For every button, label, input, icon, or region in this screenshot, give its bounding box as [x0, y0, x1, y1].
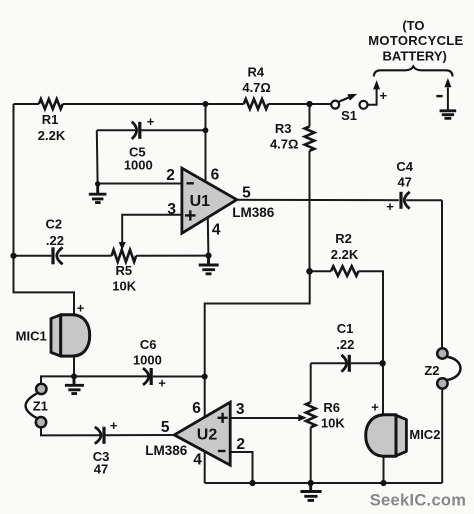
op-amp U1 [182, 168, 237, 233]
svg-text:2: 2 [236, 436, 245, 453]
wire R2 node to zigzag [310, 270, 332, 272]
svg-text:3: 3 [236, 401, 245, 418]
svg-text:C4: C4 [396, 159, 413, 174]
junction U2 pin 2 bottom rail [249, 480, 255, 486]
svg-text:4: 4 [212, 222, 221, 239]
junction U1 pin 4 ground [205, 253, 211, 259]
svg-text:2: 2 [166, 167, 175, 184]
junction C1 MIC2 node [379, 360, 385, 366]
wire left rail [13, 104, 15, 256]
svg-text:5: 5 [242, 185, 251, 202]
svg-text:+: + [380, 88, 388, 103]
ground at R6 bottom rail [300, 485, 321, 500]
svg-text:MIC1: MIC1 [16, 329, 47, 344]
svg-text:MOTORCYCLE: MOTORCYCLE [368, 33, 463, 48]
capacitor C2 plate curved [57, 247, 63, 264]
wire C2 to R5 [60, 255, 112, 257]
resistor R2 [331, 266, 359, 276]
wire U2 pin 2 [230, 452, 252, 483]
svg-text:.22: .22 [46, 233, 64, 248]
svg-text:10K: 10K [112, 279, 136, 294]
wire U1 output to C4 [237, 199, 399, 201]
wire C4 to right rail [406, 199, 442, 201]
wire C2 row left [14, 255, 52, 257]
wire battery minus stem [447, 88, 449, 111]
svg-text:1000: 1000 [124, 157, 153, 172]
wire top rail left segment (V+ net) [14, 103, 39, 105]
svg-text:4.7Ω: 4.7Ω [242, 80, 271, 95]
switch S1 arm [339, 96, 352, 102]
capacitor C4 plate curved [404, 192, 409, 209]
capacitor C4 plate straight [399, 192, 402, 209]
wire top rail R4 to S1 [268, 103, 331, 105]
wire U2 pin 4 [204, 449, 206, 483]
wire Z2 to bottom rail [441, 389, 443, 483]
ground at U1 pin 4 [199, 258, 219, 274]
junction top rail at U1 pin 6 [203, 101, 209, 107]
svg-text:R5: R5 [115, 263, 132, 278]
svg-text:R1: R1 [42, 112, 59, 127]
jack Z1 cable arc [26, 393, 37, 418]
wire U1 pin 6 [205, 104, 207, 182]
svg-text:1000: 1000 [133, 352, 162, 367]
wire C1 row left from R6 top corner [311, 362, 346, 364]
wire R6 top [310, 363, 312, 402]
svg-text:6: 6 [211, 166, 220, 183]
potentiometer R5 wiper arrowhead [119, 242, 126, 250]
junction MIC1 ground node [71, 373, 77, 379]
switch S1 left contact [331, 101, 339, 109]
battery plus terminal arrowhead [373, 80, 380, 89]
op-amp U1 plus sign [185, 210, 196, 220]
svg-text:R6: R6 [323, 400, 340, 415]
jack Z2 cable arc [447, 357, 460, 380]
microphone MIC1 horn [51, 315, 61, 356]
junction R6 bottom rail [308, 480, 314, 486]
wire MIC2 bottom [383, 456, 385, 483]
microphone MIC2 horn [396, 415, 406, 456]
wire U1 pin 3 input [122, 215, 182, 243]
capacitor C2 plate straight [51, 247, 54, 264]
svg-text:BATTERY): BATTERY) [383, 48, 447, 63]
junction U2 pin 6 node [202, 374, 208, 380]
svg-text:MIC2: MIC2 [409, 427, 440, 442]
svg-text:R3: R3 [275, 121, 292, 136]
wire U1 pin 4 [207, 218, 210, 256]
potentiometer R5 [112, 250, 137, 262]
wire C5 row left [97, 129, 135, 131]
wire right rail down to Z2 [441, 200, 443, 348]
wire R3 rail upper [309, 104, 311, 127]
resistor R1 [39, 99, 63, 109]
svg-text:+: + [77, 301, 85, 316]
svg-text:U1: U1 [190, 193, 211, 210]
junction left rail at C2 [10, 253, 16, 259]
capacitor C6 plate curved [143, 368, 149, 385]
wire top rail R1 to R4 [63, 103, 244, 105]
op-amp U2 [174, 402, 230, 465]
ground at battery minus [440, 111, 457, 119]
wire C5 down to ground node [96, 130, 99, 184]
wire S1 to battery plus [368, 89, 377, 105]
capacitor C5 plate straight [138, 122, 141, 139]
wire bottom rail (ground net) [205, 482, 443, 484]
ground at MIC1 [65, 378, 84, 394]
microphone MIC1 body [61, 315, 90, 356]
wire Z1 to C3 [41, 428, 100, 435]
wire C1 to MIC2 rail [351, 362, 383, 364]
junction C5 ground node [95, 181, 100, 186]
ground at C5 and U1 pin 2 [89, 186, 107, 203]
svg-text:.22: .22 [336, 337, 354, 352]
svg-text:5: 5 [161, 419, 170, 436]
svg-text:4: 4 [193, 451, 202, 468]
jack Z1 bottom terminal [36, 417, 46, 427]
op-amp U1 minus sign [187, 182, 194, 184]
capacitor C5 plate curved [132, 122, 137, 139]
svg-text:C6: C6 [140, 337, 157, 352]
svg-text:Z1: Z1 [33, 398, 48, 413]
wire C6 to U2 pin6 node [153, 376, 205, 378]
wire R5 to U1 pin4 ground node [136, 255, 208, 257]
svg-text:+: + [147, 114, 155, 129]
jack Z1 top terminal [36, 384, 46, 394]
svg-text:+: + [371, 400, 379, 415]
wire R3 rail lower to R2 node [309, 151, 311, 271]
svg-text:3: 3 [167, 201, 176, 218]
wire C6 row left [74, 375, 148, 377]
jack Z2 bottom terminal [437, 378, 447, 388]
capacitor C3 plate curved [95, 427, 101, 444]
svg-text:C1: C1 [337, 321, 354, 336]
wire U1 pin 2 input [98, 183, 182, 185]
battery minus sign [436, 95, 442, 97]
svg-text:LM386: LM386 [232, 205, 275, 220]
svg-text:R2: R2 [335, 231, 352, 246]
svg-text:Z2: Z2 [424, 363, 439, 378]
wire U2 output to C3 [106, 434, 175, 436]
junction MIC2 bottom rail [380, 480, 386, 486]
capacitor C1 plate curved [341, 355, 346, 372]
wire U2 pin 6 [204, 377, 206, 422]
junction C5 right node [203, 127, 209, 133]
wire left rail to MIC1 top [14, 256, 75, 315]
svg-text:+: + [386, 199, 394, 214]
capacitor C1 plate straight [348, 355, 351, 372]
op-amp U2 plus sign [218, 413, 228, 423]
potentiometer R6 wiper arrowhead [298, 414, 307, 421]
wire MIC1 bottom [73, 356, 75, 376]
battery minus terminal arrowhead [444, 78, 451, 87]
wire MIC1 node to Z1 top [41, 376, 74, 383]
capacitor C3 plate straight [102, 427, 105, 444]
svg-text:4.7Ω: 4.7Ω [270, 137, 299, 152]
wire R2 node down and across to U2 supply [205, 271, 310, 376]
svg-text:2.2K: 2.2K [38, 128, 66, 143]
svg-text:+: + [158, 375, 166, 390]
svg-text:U2: U2 [197, 427, 218, 444]
wire C5 to U1 pin6 node [141, 129, 205, 131]
svg-text:LM386: LM386 [145, 443, 188, 458]
junction R3 R2 node [306, 268, 313, 275]
wire U2 pin 3 to R6 wiper [230, 417, 298, 419]
junction top rail at R3 [306, 101, 312, 107]
svg-text:SeekIC.com: SeekIC.com [370, 491, 467, 509]
svg-text:47: 47 [94, 462, 108, 477]
potentiometer R6 [306, 402, 316, 427]
switch S1 arm arrowhead [347, 94, 357, 101]
svg-text:+: + [110, 418, 118, 433]
wire R2 to C1 rail [359, 271, 384, 363]
op-amp U2 minus sign [218, 450, 226, 452]
jack Z2 top terminal [437, 348, 447, 358]
wire R6 bottom to ground rail [310, 427, 312, 483]
microphone MIC2 body [366, 415, 396, 457]
svg-text:6: 6 [192, 400, 201, 417]
resistor R3 [305, 127, 315, 151]
wire MIC2 top [382, 363, 384, 415]
switch S1 right contact [360, 101, 368, 109]
svg-text:C2: C2 [45, 217, 62, 232]
svg-text:10K: 10K [321, 415, 345, 430]
svg-text:2.2K: 2.2K [331, 247, 359, 262]
resistor R4 [244, 99, 268, 109]
brace over battery terminals [374, 66, 453, 76]
svg-text:S1: S1 [341, 108, 357, 123]
svg-text:47: 47 [397, 174, 411, 189]
svg-text:(TO: (TO [402, 18, 424, 33]
capacitor C6 plate straight [150, 368, 153, 385]
svg-text:R4: R4 [247, 65, 264, 80]
